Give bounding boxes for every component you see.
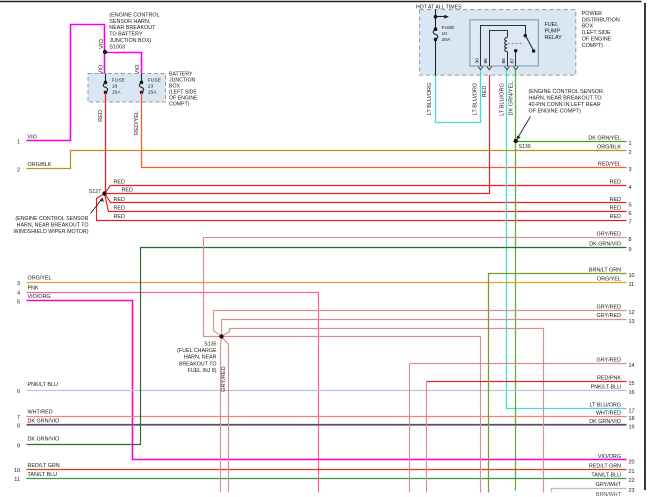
svg-text:11: 11 — [629, 282, 635, 288]
svg-text:DK GRN/YEL: DK GRN/YEL — [588, 136, 621, 142]
svg-text:DK GRN/YEL: DK GRN/YEL — [509, 82, 515, 116]
svg-text:ORG/BLK: ORG/BLK — [597, 144, 621, 150]
svg-text:COMPT): COMPT) — [582, 43, 603, 49]
svg-text:HARN, NEAR BREAKOUT TO: HARN, NEAR BREAKOUT TO — [17, 222, 89, 228]
svg-text:10: 10 — [14, 468, 20, 474]
svg-text:85: 85 — [501, 58, 507, 64]
svg-text:OF ENGINE COMPT): OF ENGINE COMPT) — [529, 109, 582, 115]
svg-text:COMPT): COMPT) — [169, 101, 190, 107]
wire RED/YEL fuse 23 output to right pin 3 — [142, 93, 627, 168]
relay pin sockets — [478, 67, 483, 70]
svg-text:FUSE: FUSE — [148, 77, 162, 83]
svg-text:7: 7 — [629, 220, 632, 226]
svg-text:HARN, NEAR BREAKOUT TO: HARN, NEAR BREAKOUT TO — [529, 96, 602, 102]
wire VIO left pin 1 to battery junction box fuse 18 — [27, 25, 105, 141]
relay actuation dashed link — [508, 43, 524, 45]
wire GRY/RED S135 branch to bottom right (cut off) — [222, 337, 481, 493]
svg-text:3: 3 — [629, 167, 632, 173]
wire DK GRN/YEL S139 to right pin 1 — [516, 141, 627, 143]
svg-text:S127: S127 — [89, 189, 101, 195]
svg-text:BRN/LT GRN: BRN/LT GRN — [589, 268, 621, 274]
svg-text:(FUEL CHARGE: (FUEL CHARGE — [177, 348, 217, 354]
svg-text:PNK: PNK — [28, 285, 39, 291]
svg-text:RED: RED — [114, 214, 125, 220]
svg-text:10: 10 — [442, 31, 448, 37]
svg-text:RED/LT GRN: RED/LT GRN — [589, 464, 621, 470]
fuse 10 20A with feed tap arrow — [435, 10, 437, 30]
wire PNK/LT BLU left pin 6 to right pin 16 — [27, 390, 627, 392]
svg-text:10: 10 — [629, 273, 635, 279]
svg-text:NEAR BREAKOUT: NEAR BREAKOUT — [109, 25, 156, 31]
svg-text:TO BATTERY: TO BATTERY — [109, 32, 143, 38]
svg-text:21: 21 — [629, 469, 635, 475]
svg-text:WINDSHIELD WIPER MOTOR): WINDSHIELD WIPER MOTOR) — [14, 229, 89, 235]
svg-text:OF ENGINE: OF ENGINE — [582, 37, 612, 43]
wire GRY/RED pin 14 left leg down (cut off) — [409, 364, 411, 493]
svg-text:ORG/BLK: ORG/BLK — [28, 162, 52, 168]
svg-text:BREAKOUT TO: BREAKOUT TO — [179, 361, 217, 367]
svg-text:DK GRN/VIO: DK GRN/VIO — [28, 418, 60, 424]
wire GRY/RED S135 to right pin 14 via jog — [222, 329, 544, 493]
border frame right — [644, 3, 646, 490]
svg-text:FUSE: FUSE — [442, 25, 456, 31]
svg-text:VIO: VIO — [99, 64, 105, 74]
svg-text:(ENGINE CONTROL: (ENGINE CONTROL — [109, 12, 159, 18]
svg-text:(ENGINE CONTROL SENSOR: (ENGINE CONTROL SENSOR — [529, 89, 603, 95]
svg-text:GRY/RED: GRY/RED — [597, 231, 622, 237]
wire ORG/YEL left pin 3 to right pin 11 — [27, 282, 627, 284]
svg-text:DISTRIBUTION: DISTRIBUTION — [582, 17, 620, 23]
wire GRY/RED right pin 14 horizontal — [410, 363, 627, 365]
svg-text:15: 15 — [629, 381, 635, 387]
wire DK GRN/VIO left pin 8 to right pin 19 (two-tone) — [27, 424, 627, 426]
svg-text:VIO/ORG: VIO/ORG — [28, 294, 51, 300]
arrow from note to S139 — [519, 117, 531, 137]
wire GRY/RED S135 up to right pin 8 — [204, 238, 627, 337]
svg-text:GRY/RED: GRY/RED — [597, 304, 622, 310]
battery junction box — [88, 74, 166, 103]
svg-text:18: 18 — [112, 83, 118, 89]
splice S139 — [514, 139, 518, 143]
svg-text:12: 12 — [629, 310, 635, 316]
svg-text:20: 20 — [629, 459, 635, 465]
svg-text:22: 22 — [629, 478, 635, 484]
svg-text:4: 4 — [17, 291, 20, 297]
border frame top — [0, 1, 642, 3]
svg-text:RED: RED — [482, 86, 488, 98]
svg-text:(ENGINE CONTROL SENSOR: (ENGINE CONTROL SENSOR — [15, 216, 88, 222]
svg-text:S135: S135 — [204, 342, 216, 348]
wire RED S127 branch to right pin 5 — [105, 194, 627, 203]
svg-text:RED/LT GRN: RED/LT GRN — [28, 463, 60, 469]
svg-text:VIO/ORG: VIO/ORG — [598, 454, 621, 460]
wire WHT/RED left pin 7 to right pin 18 — [27, 416, 627, 418]
svg-text:GRY/RED: GRY/RED — [597, 313, 622, 319]
wire PNK left pin 4 down to bottom (fuel inj feed) — [27, 293, 319, 493]
svg-text:LT BLU/ORG: LT BLU/ORG — [589, 403, 621, 409]
svg-text:30: 30 — [474, 58, 480, 64]
svg-text:RED: RED — [610, 180, 621, 186]
wire VIO/ORG left pin 5 to right pin 20 — [27, 301, 627, 460]
wire RED S127 branch to right pin 7 — [97, 194, 627, 221]
svg-text:WHT/RED: WHT/RED — [596, 410, 621, 416]
svg-text:PUMP: PUMP — [545, 29, 561, 35]
svg-text:VIO: VIO — [135, 64, 141, 74]
svg-text:LT BLU/ORG: LT BLU/ORG — [473, 83, 479, 116]
wire GRY/RED S135 down branch 2 (cut off) — [222, 337, 229, 493]
svg-text:87: 87 — [510, 58, 516, 64]
svg-text:DK GRN/VIO: DK GRN/VIO — [589, 242, 621, 248]
svg-text:RED: RED — [610, 214, 621, 220]
svg-text:14: 14 — [629, 363, 635, 369]
svg-text:15A: 15A — [148, 89, 157, 95]
svg-text:15A: 15A — [112, 89, 121, 95]
wire ORG/BLK left pin 2 to right pin 2 — [27, 151, 627, 169]
svg-text:40-PIN CONN IN LEFT REAR: 40-PIN CONN IN LEFT REAR — [529, 102, 601, 108]
svg-text:S1003: S1003 — [109, 45, 125, 51]
svg-text:5: 5 — [17, 299, 20, 305]
wire DK GRN/VIO left pin 9 to right pin 9 — [27, 248, 627, 445]
svg-text:TAN/LT BLU: TAN/LT BLU — [591, 472, 621, 478]
fuse 18 15A — [105, 74, 107, 83]
fuse 23 15A — [141, 74, 143, 83]
svg-text:S139: S139 — [519, 144, 531, 150]
svg-text:ORG/YEL: ORG/YEL — [28, 276, 52, 282]
wire GRY/RED S135 to right pin 12 — [214, 311, 627, 337]
svg-text:RED: RED — [610, 206, 621, 212]
svg-text:18: 18 — [629, 416, 635, 422]
svg-text:23: 23 — [629, 488, 635, 494]
svg-text:19: 19 — [629, 425, 635, 431]
svg-text:3: 3 — [17, 281, 20, 287]
arrow from note to S127 — [91, 200, 102, 214]
svg-text:8: 8 — [629, 237, 632, 243]
svg-text:BOX: BOX — [582, 24, 594, 30]
splice S127 — [102, 191, 106, 195]
relay pin 87 contact — [515, 51, 517, 67]
svg-text:LT BLU/ORG: LT BLU/ORG — [427, 83, 433, 116]
svg-text:6: 6 — [17, 389, 20, 395]
svg-text:FUEL INJ 8): FUEL INJ 8) — [188, 368, 217, 374]
svg-text:RED: RED — [610, 197, 621, 203]
relay pin 30 internal lead to switch pivot — [481, 26, 526, 67]
wire RED S127 branch to fuel pump relay pin 86 — [105, 71, 490, 194]
svg-text:13: 13 — [629, 319, 635, 325]
svg-text:GRY/RED: GRY/RED — [221, 366, 227, 391]
svg-text:RED/YEL: RED/YEL — [598, 161, 621, 167]
wire RED fuse 18 output down to splice S127 — [105, 93, 107, 194]
svg-text:9: 9 — [17, 443, 20, 449]
svg-text:5: 5 — [629, 203, 632, 209]
wire RED S127 branch to right pin 4 — [105, 186, 627, 194]
svg-text:RELAY: RELAY — [545, 35, 563, 41]
svg-text:(LEFT SIDE: (LEFT SIDE — [582, 30, 611, 36]
svg-text:7: 7 — [17, 415, 20, 421]
svg-text:DK GRN/VIO: DK GRN/VIO — [589, 419, 621, 425]
svg-text:86: 86 — [483, 58, 489, 64]
relay pin 86 internal lead to coil — [490, 31, 508, 67]
svg-text:11: 11 — [14, 477, 20, 483]
svg-text:4: 4 — [629, 185, 632, 191]
svg-text:RED: RED — [114, 179, 125, 185]
splice S1003 — [103, 50, 107, 54]
svg-text:RED: RED — [114, 205, 125, 211]
svg-text:JUNCTION BOX): JUNCTION BOX) — [109, 38, 151, 44]
wire RED/PNK right pin 15 vertical leg (cut off) — [426, 382, 428, 493]
svg-text:8: 8 — [17, 424, 20, 430]
relay switch arm — [526, 36, 534, 51]
wire GRY/RED S135 down branch 1 (cut off) — [221, 337, 222, 493]
svg-text:23: 23 — [148, 83, 154, 89]
svg-text:RED: RED — [98, 110, 104, 122]
svg-text:VIO: VIO — [28, 134, 37, 140]
fuel pump relay box — [470, 20, 538, 66]
svg-text:6: 6 — [629, 211, 632, 217]
svg-text:1: 1 — [629, 141, 632, 147]
svg-text:ORG/YEL: ORG/YEL — [597, 276, 621, 282]
relay coil on pin 85 — [507, 31, 509, 38]
wire RED S127 branch to right pin 6 — [105, 194, 627, 212]
wire LT BLU/ORG fuse 10 to relay pin 30 — [436, 71, 481, 123]
wire LT BLU/ORG relay pin 85 down to right pin 17 — [507, 71, 627, 409]
svg-text:RED: RED — [114, 197, 125, 203]
power distribution box — [420, 10, 576, 76]
svg-text:HARN, NEAR: HARN, NEAR — [184, 355, 217, 361]
svg-text:20A: 20A — [442, 37, 451, 43]
svg-text:FUSE: FUSE — [112, 77, 126, 83]
svg-text:POWER: POWER — [582, 11, 602, 17]
svg-text:DK GRN/VIO: DK GRN/VIO — [28, 436, 60, 442]
svg-text:1: 1 — [17, 140, 20, 146]
wire TAN/LT BLU left pin 11 to right pin 22 — [27, 478, 627, 480]
svg-text:17: 17 — [629, 408, 635, 414]
wire RED/LT GRN left pin 10 to right pin 21 — [27, 469, 627, 471]
svg-text:BRN/WHT: BRN/WHT — [596, 492, 622, 497]
svg-text:TAN/LT BLU: TAN/LT BLU — [28, 472, 58, 478]
svg-text:PNK/LT BLU: PNK/LT BLU — [28, 382, 58, 388]
wire RED/PNK right pin 15 horizontal — [427, 381, 627, 383]
svg-text:2: 2 — [17, 167, 20, 173]
svg-text:RED/PNK: RED/PNK — [597, 375, 621, 381]
svg-text:FUEL: FUEL — [545, 22, 559, 28]
svg-text:RED: RED — [122, 188, 133, 194]
wire VIO S1003 branch to fuse 23 — [105, 53, 142, 74]
svg-text:SENSOR HARN,: SENSOR HARN, — [109, 19, 151, 25]
svg-text:9: 9 — [629, 247, 632, 253]
svg-text:16: 16 — [629, 390, 635, 396]
svg-text:GRY/WHT: GRY/WHT — [596, 482, 622, 488]
wire GRY/WHT right pin 23 from bottom (cut off) — [552, 489, 627, 493]
splice S135 — [219, 334, 223, 338]
svg-text:GRY/RED: GRY/RED — [597, 357, 622, 363]
wire BRN/LT GRN right pin 10 from bottom (cut off) — [489, 274, 627, 493]
wire GRY/RED S135 to right pin 13 — [222, 320, 627, 337]
svg-text:PNK/LT BLU: PNK/LT BLU — [591, 384, 621, 390]
svg-text:WHT/RED: WHT/RED — [28, 410, 53, 416]
relay switch pivot — [524, 34, 527, 37]
svg-text:2: 2 — [629, 150, 632, 156]
wire DK GRN/YEL relay pin 87 down through S139 — [515, 71, 517, 491]
svg-text:VIO: VIO — [99, 39, 105, 49]
svg-text:RED/YEL: RED/YEL — [134, 111, 140, 135]
svg-text:LT BLU/ORG: LT BLU/ORG — [500, 83, 506, 116]
